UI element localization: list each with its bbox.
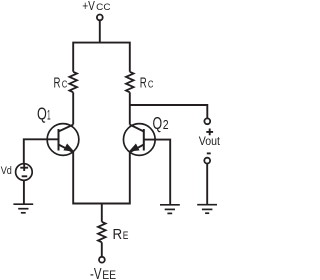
Q1 body circle (47, 124, 79, 156)
svg-text:C: C (62, 79, 68, 91)
label RC left (54, 76, 68, 92)
ground right (vout) (197, 205, 217, 214)
svg-text:Q: Q (153, 113, 163, 133)
Q1 emitter lead (59, 145, 74, 153)
resistor RC left (69, 72, 77, 93)
label RE (113, 227, 129, 243)
label Q2 (153, 113, 169, 133)
svg-text:E: E (123, 230, 129, 242)
plus sign vout (206, 129, 213, 136)
svg-text:R: R (54, 76, 61, 92)
wire output tap (130, 105, 208, 119)
Q2 emitter lead (130, 145, 144, 153)
terminal vout plus (204, 118, 210, 124)
label vd (1, 165, 12, 177)
label -VEE (90, 266, 116, 280)
source vd (16, 164, 33, 181)
wire emitter rail (73, 152, 130, 204)
svg-text:C: C (148, 78, 154, 90)
label RC right (140, 75, 154, 91)
Q2 emitter arrow (130, 145, 138, 151)
transistor Q2 (123, 124, 155, 156)
wire vout ground stem (206, 164, 208, 205)
svg-text:1: 1 (47, 107, 51, 122)
wire right collector (129, 92, 131, 124)
Q2 base bar (143, 129, 145, 151)
wire VCC stem (99, 21, 101, 43)
svg-text:-V: -V (90, 266, 102, 280)
svg-text:Vout: Vout (199, 135, 221, 148)
wire top rail (73, 43, 130, 72)
terminal -VEE (99, 257, 105, 263)
svg-text:R: R (140, 75, 147, 91)
minus sign vd (22, 175, 28, 177)
wire RE to terminal (101, 242, 103, 256)
svg-text:Q: Q (37, 103, 47, 123)
wire Q1 base (24, 139, 59, 163)
Q2 body circle (123, 124, 155, 156)
plus sign vd (20, 164, 28, 171)
svg-text:Vd: Vd (1, 165, 12, 177)
terminal +VCC (97, 15, 103, 21)
resistor RE (98, 222, 106, 243)
resistor RC right (126, 72, 134, 93)
ground left (vd) (13, 204, 33, 213)
svg-text:+V: +V (82, 0, 95, 13)
minus sign vout (207, 152, 211, 154)
ground middle (Q2 base) (160, 205, 180, 214)
wire RE stem (101, 204, 103, 222)
label Vout (199, 135, 221, 148)
terminal vout minus (204, 158, 210, 164)
Q1 base bar (58, 129, 60, 151)
svg-text:CC: CC (96, 2, 110, 13)
Q1 emitter arrow (64, 145, 72, 151)
svg-text:R: R (113, 227, 123, 243)
svg-text:EE: EE (102, 270, 116, 280)
Q2 collector lead (130, 125, 144, 132)
transistor Q1 (47, 124, 79, 156)
label +VCC (82, 0, 110, 13)
wire left collector (72, 92, 74, 124)
wire vd ground stem (23, 181, 25, 204)
label Q1 (37, 103, 51, 123)
wire Q2 base to ground (144, 140, 170, 205)
svg-text:2: 2 (163, 117, 169, 132)
Q1 collector lead (59, 125, 74, 132)
